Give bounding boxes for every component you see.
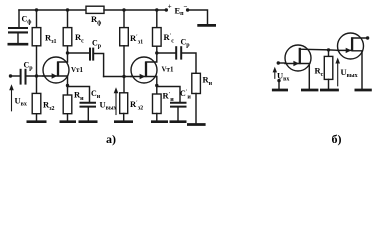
- ground under Rz2: [27, 120, 47, 123]
- svg-text:R′з1: R′з1: [130, 33, 143, 46]
- resistor Rz1 (R_з1): [32, 10, 41, 46]
- ground under R'i: [151, 120, 168, 123]
- resistor R'c (R'_с): [153, 10, 162, 46]
- capacitor Cp output coupling: [157, 46, 196, 73]
- svg-text:+: +: [168, 4, 172, 11]
- wire +Ep rail left segment: [19, 9, 86, 11]
- svg-text:Rи: Rи: [74, 90, 84, 103]
- wire rail mid segment: [104, 9, 166, 11]
- ground under input b: [272, 89, 288, 92]
- resistor R'i (R'_и): [153, 94, 162, 120]
- resistor Rc (R_с): [63, 10, 72, 46]
- capacitor Cf (C_ф): [8, 10, 28, 43]
- ground under Ci: [79, 120, 98, 123]
- node source2: [155, 84, 158, 87]
- capacitor C'i (C'_и): [157, 87, 187, 121]
- node source1: [66, 84, 69, 87]
- svg-text:Cф: Cф: [22, 15, 32, 26]
- ground under Rc b: [320, 89, 339, 92]
- svg-text:−: −: [184, 3, 188, 11]
- arrow Uvyx b: [335, 58, 340, 86]
- node rail + terminal: [165, 8, 168, 11]
- node rail/R'c: [155, 8, 158, 11]
- resistor Rc of b: [324, 50, 333, 89]
- arrow Uvx b: [273, 67, 277, 79]
- svg-text:Cи: Cи: [91, 89, 101, 100]
- svg-text:Rз2: Rз2: [43, 100, 55, 113]
- svg-text:Rс: Rс: [75, 32, 84, 45]
- capacitor Cp interstage coupling: [68, 48, 104, 77]
- svg-text:Uвх: Uвх: [15, 96, 27, 108]
- wire input b bottom to ground: [278, 81, 280, 89]
- node rail/Rz1: [35, 8, 38, 11]
- ground under T2 b source: [355, 89, 372, 92]
- svg-text:Rф: Rф: [91, 14, 101, 27]
- svg-text:б): б): [332, 132, 342, 146]
- node input terminal: [9, 74, 12, 77]
- wire R'z1 to gate2: [123, 46, 125, 93]
- ground under T1 b source: [301, 89, 318, 92]
- arrow Uvyx (stage output voltage): [114, 87, 119, 114]
- ground under Ri: [60, 120, 77, 123]
- svg-text:Rз1: Rз1: [45, 33, 57, 46]
- svg-text:а): а): [106, 132, 116, 146]
- capacitor Cp input coupling: [11, 69, 44, 85]
- node drain2: [155, 51, 158, 54]
- transistor T2 of b: [338, 33, 367, 89]
- resistor R'z1 (R'_з1): [120, 10, 129, 46]
- svg-text:R′з2: R′з2: [130, 99, 143, 112]
- ground under C'i: [170, 120, 187, 123]
- wire to gate2: [104, 76, 131, 78]
- wire Rz1 to gate node: [36, 46, 38, 94]
- svg-text:R′с: R′с: [164, 32, 175, 45]
- svg-text:Vт1: Vт1: [71, 66, 83, 74]
- resistor Rn (R_н load): [192, 73, 201, 123]
- node rail/Rc: [66, 8, 69, 11]
- node gate2: [122, 75, 125, 78]
- svg-text:Rс: Rс: [315, 66, 324, 79]
- svg-text:C′и: C′и: [180, 89, 191, 101]
- node drain T2b terminal: [366, 36, 369, 39]
- transistor VT2: [131, 46, 157, 94]
- node rail - terminal: [186, 8, 189, 11]
- resistor R'z2 (R'_з2): [120, 93, 128, 121]
- ground (Ep negative terminal): [197, 24, 216, 27]
- resistor Rz2 (R_з2): [32, 93, 41, 120]
- svg-text:Rн: Rн: [203, 75, 213, 88]
- ground under Rn: [187, 123, 206, 126]
- resistor Rf (R_ф) in supply rail: [86, 6, 104, 13]
- svg-text:R′и: R′и: [163, 91, 175, 104]
- resistor Ri (R_и): [63, 95, 72, 120]
- transistor VT1: [43, 46, 69, 95]
- node rail/R'z1: [122, 8, 125, 11]
- transistor T1 of b: [285, 45, 338, 89]
- svg-text:Vт1: Vт1: [162, 66, 174, 74]
- arrow Uvx input voltage: [9, 84, 14, 111]
- node drain1: [66, 51, 69, 54]
- wire input b to gate: [278, 62, 285, 64]
- wire rail right segment to supply ground: [188, 10, 208, 24]
- ground under Cf: [8, 43, 29, 46]
- svg-text:Uвых: Uвых: [100, 100, 117, 112]
- node drain T1b / Rc tap: [327, 48, 330, 51]
- capacitor Ci (C_и): [68, 87, 97, 121]
- node gate1: [35, 74, 38, 77]
- node input b top: [277, 61, 280, 64]
- svg-text:Uвых: Uвых: [341, 67, 358, 79]
- ground under R'z2: [114, 120, 133, 123]
- node input b bottom: [277, 79, 280, 82]
